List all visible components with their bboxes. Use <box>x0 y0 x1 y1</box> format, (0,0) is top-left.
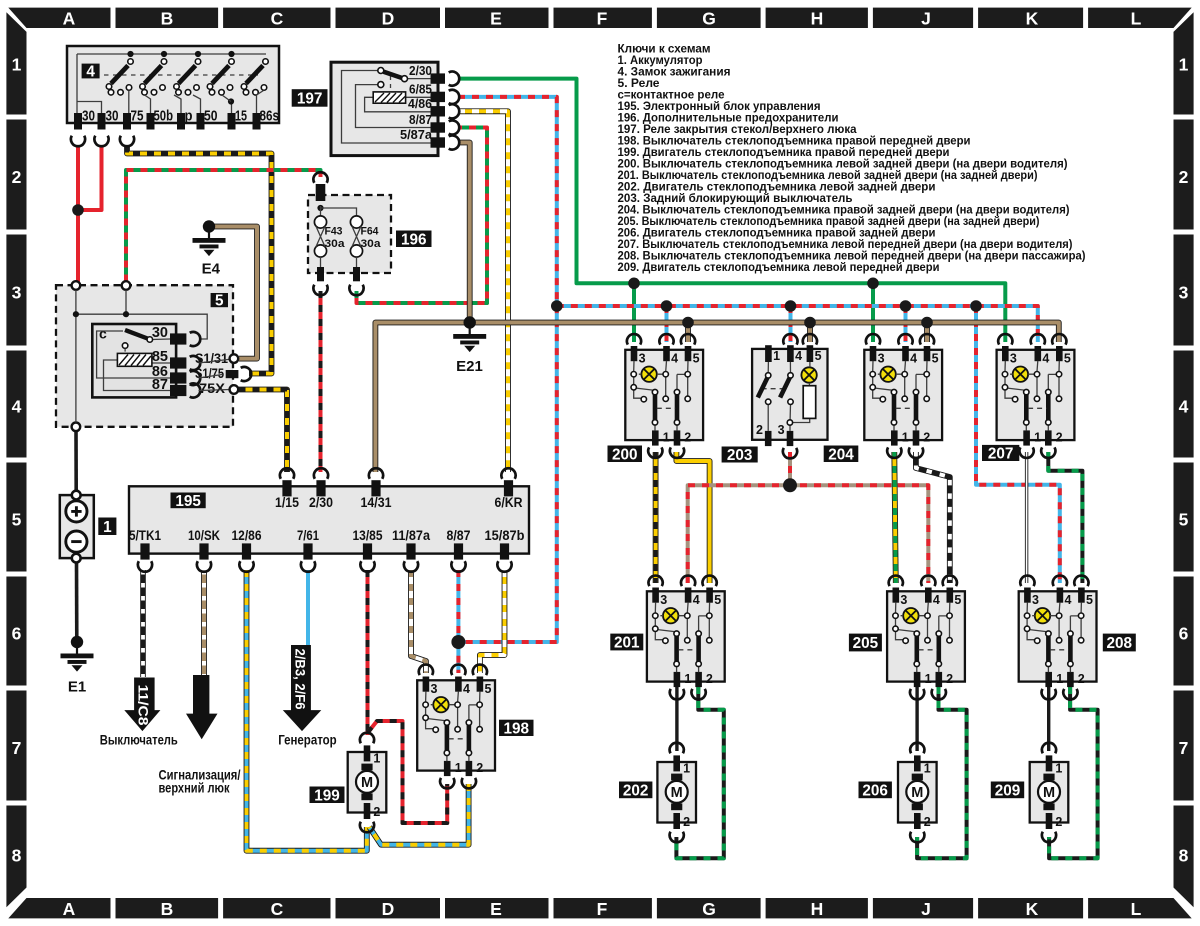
label 4 <box>82 64 100 81</box>
window switch 201 <box>647 576 725 700</box>
label 209 <box>991 782 1024 800</box>
svg-text:205: 205 <box>853 635 879 652</box>
svg-text:1: 1 <box>773 349 780 363</box>
svg-text:8: 8 <box>12 845 22 865</box>
ground E4 <box>193 220 226 256</box>
svg-text:1/15: 1/15 <box>275 495 299 510</box>
wire green drop to 200 pin3 <box>632 283 636 342</box>
label 195 <box>171 493 206 510</box>
ground E21 <box>453 316 486 352</box>
svg-text:H: H <box>811 899 824 919</box>
svg-text:J: J <box>921 899 931 919</box>
svg-text:E: E <box>490 8 502 28</box>
wire black-white 5/TK1 <box>140 570 146 677</box>
arrow 11/C8 to switch <box>124 678 160 732</box>
svg-text:204: 204 <box>828 446 854 463</box>
window switch 200 <box>625 334 703 458</box>
svg-text:4: 4 <box>86 64 95 81</box>
svg-text:7/61: 7/61 <box>297 528 319 543</box>
svg-text:30a: 30a <box>325 238 346 250</box>
svg-text:11/C8: 11/C8 <box>136 685 152 726</box>
wire blue-red bus <box>557 306 1038 342</box>
wire black-green 201p2 to 202p2 <box>676 687 723 858</box>
wire cyan-yellow 12/86 <box>247 570 367 851</box>
svg-text:206: 206 <box>862 782 888 799</box>
label 198 <box>499 720 534 738</box>
svg-text:6/85: 6/85 <box>409 81 432 96</box>
label 197 <box>292 89 328 107</box>
svg-text:198: 198 <box>503 720 529 737</box>
wire yellow-black 75X to 1/15 <box>239 390 288 473</box>
window motor 199 <box>348 733 387 833</box>
svg-text:F64: F64 <box>361 226 380 238</box>
wire battery to ground E1 <box>75 563 79 643</box>
svg-text:S1/75: S1/75 <box>195 365 224 381</box>
svg-text:Генератор: Генератор <box>278 733 337 748</box>
svg-text:5: 5 <box>1179 509 1189 529</box>
junction dot red feed <box>72 204 84 216</box>
svg-text:208: 208 <box>1107 635 1133 652</box>
label 206 <box>859 782 892 800</box>
svg-text:196: 196 <box>401 231 427 248</box>
svg-text:C: C <box>271 899 284 919</box>
svg-text:195: 195 <box>175 493 201 510</box>
svg-text:L: L <box>1131 899 1142 919</box>
wire blue-red drop to 203 pin4 <box>789 306 793 342</box>
wire brown 5/87a down <box>458 143 470 323</box>
svg-text:F43: F43 <box>325 226 343 238</box>
svg-text:2/30: 2/30 <box>309 495 333 510</box>
rear lockout switch 203 <box>752 334 827 458</box>
svg-text:50: 50 <box>204 108 218 125</box>
relay 5 <box>56 281 251 431</box>
svg-text:15: 15 <box>235 108 247 125</box>
junction dot blue-red at 203 <box>785 300 797 312</box>
svg-text:2: 2 <box>1179 167 1189 187</box>
junction dot blue-red at 200 <box>661 300 673 312</box>
svg-text:E4: E4 <box>202 261 221 278</box>
wire black 208p1 to 209 <box>1047 687 1050 751</box>
svg-text:7: 7 <box>1179 738 1189 758</box>
wire red-black branch to 198 pin1 <box>368 721 448 823</box>
svg-text:D: D <box>382 8 395 28</box>
wire yellow 200p2 to 201p5 <box>676 452 709 583</box>
label 203 <box>722 447 758 465</box>
svg-text:c: c <box>99 326 107 342</box>
control unit 195 <box>129 468 529 572</box>
svg-text:200: 200 <box>612 446 638 463</box>
svg-text:K: K <box>1026 899 1039 919</box>
ignition switch 4 <box>67 46 279 146</box>
svg-text:5/TK1: 5/TK1 <box>129 528 161 543</box>
svg-text:H: H <box>811 8 824 28</box>
label 1 <box>98 518 116 536</box>
svg-text:203: 203 <box>727 447 753 464</box>
wire red-gray 203 pin3 bus <box>788 452 792 485</box>
wire yellow-white 15/87b <box>480 570 505 673</box>
svg-text:G: G <box>702 899 716 919</box>
arrow to alarm/sunroof <box>186 675 218 739</box>
fuse box 196 <box>308 172 391 295</box>
svg-text:2/30: 2/30 <box>409 63 432 78</box>
svg-text:A: A <box>63 899 76 919</box>
svg-text:207: 207 <box>988 445 1014 462</box>
svg-text:B: B <box>161 899 174 919</box>
svg-text:10/SK: 10/SK <box>188 528 220 543</box>
svg-text:4/86: 4/86 <box>408 96 432 111</box>
svg-text:3: 3 <box>1179 282 1189 302</box>
wire green-red relay5 to fuse box <box>126 170 321 282</box>
wire red link pin30b <box>79 146 102 211</box>
battery 1 <box>60 491 94 563</box>
wire black-white 204p2 to 205p5 <box>916 452 950 583</box>
svg-text:верхний люк: верхний люк <box>159 781 230 796</box>
wire white-brown 11/87a <box>411 570 426 673</box>
svg-text:4: 4 <box>1179 396 1189 416</box>
wire black 201p1 to 202 <box>675 687 678 751</box>
svg-text:5/87a: 5/87a <box>400 127 433 142</box>
wire green bus 2/30 to switches <box>458 79 1005 342</box>
window switch 198 <box>417 665 495 789</box>
svg-text:209: 209 <box>995 782 1021 799</box>
svg-text:E: E <box>490 899 502 919</box>
junction dot brown at 204 <box>921 317 933 329</box>
wire red-green F64 to 8/87 <box>357 128 488 304</box>
junction dot blue-red near 198 <box>451 635 465 649</box>
svg-text:8/87: 8/87 <box>447 528 471 543</box>
label 202 <box>619 782 652 800</box>
wire red-black F43 to 2/30 <box>319 291 323 472</box>
wire blue-red drop to 200 pin4 <box>665 306 669 342</box>
svg-text:86s: 86s <box>260 108 280 125</box>
wire blue-red drop to 204 pin4 <box>904 306 908 342</box>
svg-text:5: 5 <box>215 293 224 310</box>
wire brown drop to 203 pin5 <box>807 323 813 343</box>
svg-text:J: J <box>921 8 931 28</box>
svg-text:G: G <box>702 8 716 28</box>
window switch 205 <box>887 576 965 700</box>
svg-text:209. Двигатель стеклоподъемник: 209. Двигатель стеклоподъемника левой пе… <box>618 260 940 274</box>
wire black-green 208p2 to 209p2 <box>1049 687 1098 858</box>
svg-text:1: 1 <box>12 54 22 74</box>
legend text <box>618 41 1086 273</box>
label 200 <box>608 446 643 464</box>
svg-text:2/B3, 2/F6: 2/B3, 2/F6 <box>292 649 308 710</box>
wire red-gray bus horizontal <box>688 485 929 583</box>
svg-text:B: B <box>161 8 174 28</box>
wire red-black 13/85 to 199 <box>366 570 370 735</box>
ground E1 <box>61 636 94 672</box>
svg-text:K: K <box>1026 8 1039 28</box>
svg-text:201: 201 <box>614 635 640 652</box>
svg-text:5: 5 <box>12 509 22 529</box>
window motor 206 <box>898 743 937 843</box>
svg-text:C: C <box>271 8 284 28</box>
arrow 2/B3 2/F6 to generator <box>283 645 322 731</box>
wire brown bus E21 <box>375 323 1058 473</box>
svg-text:S1/31: S1/31 <box>195 350 228 366</box>
svg-text:p: p <box>185 108 193 125</box>
svg-text:D: D <box>382 899 395 919</box>
wire cyan 7/61 <box>306 570 310 646</box>
label 208 <box>1103 634 1136 652</box>
svg-text:1: 1 <box>1179 54 1189 74</box>
svg-text:E1: E1 <box>68 679 86 696</box>
label 201 <box>610 634 643 652</box>
junction dot blue-red at 204 <box>900 300 912 312</box>
svg-text:13/85: 13/85 <box>353 528 383 543</box>
svg-text:3: 3 <box>778 423 785 437</box>
svg-text:197: 197 <box>297 90 323 107</box>
svg-text:199: 199 <box>314 787 340 804</box>
wire black-green 205p2 to 206p2 <box>917 687 967 858</box>
svg-text:L: L <box>1131 8 1142 28</box>
relay 197 <box>331 62 459 155</box>
wire yellow-green 204p1 to 205p3 <box>894 452 896 583</box>
wire blue-red 6/85 down <box>458 97 557 673</box>
wire yellow-white 4/86 to 6/KR <box>458 111 508 472</box>
svg-text:8: 8 <box>1179 845 1189 865</box>
junction dot brown at 203 <box>804 317 816 329</box>
wire black 205p1 to 206 <box>915 687 918 751</box>
wire blue-red 195 8/87 to junction <box>456 570 460 642</box>
wire yellow-black 200p1 to 201p3 <box>653 452 659 583</box>
junction dot green bus at 200 <box>628 278 640 290</box>
label 5 <box>211 293 228 310</box>
wire brown E4 to S1/31 <box>209 227 257 359</box>
label 205 <box>849 634 882 652</box>
junction dot blue-red at 208 riser <box>970 300 982 312</box>
svg-text:E21: E21 <box>456 358 483 375</box>
junction dot red-gray bus <box>783 478 797 492</box>
junction dot brown at 200 <box>682 317 694 329</box>
svg-text:6: 6 <box>1179 623 1189 643</box>
label 199 <box>310 787 345 805</box>
window switch 204 <box>864 334 942 458</box>
wire yellow-black 75 to S1/75 <box>127 146 272 374</box>
svg-text:30: 30 <box>106 108 119 125</box>
junction dot green bus at 204 <box>867 278 879 290</box>
wire black-green 207p2 to 208p5 <box>1048 452 1082 583</box>
window motor 202 <box>657 743 696 843</box>
wire battery feed from relay 5 <box>74 431 78 492</box>
svg-text:202: 202 <box>623 782 649 799</box>
svg-text:8/87: 8/87 <box>409 112 432 127</box>
svg-text:30a: 30a <box>361 238 382 250</box>
svg-text:50b: 50b <box>154 108 174 125</box>
svg-text:14/31: 14/31 <box>361 495 392 510</box>
wire green drop to 204 pin3 <box>871 283 875 342</box>
svg-text:3: 3 <box>12 282 22 302</box>
svg-text:F: F <box>597 899 608 919</box>
wire brown drop to 204 pin5 <box>924 323 930 343</box>
svg-text:4: 4 <box>12 396 22 416</box>
svg-text:15/87b: 15/87b <box>485 528 525 543</box>
label 207 <box>982 445 1019 463</box>
label 196 <box>396 231 432 249</box>
wire white 207p1 to 208p3 <box>1025 452 1028 583</box>
svg-text:1: 1 <box>103 519 112 536</box>
svg-text:75X: 75X <box>199 380 226 396</box>
svg-text:A: A <box>63 8 76 28</box>
window switch 207 <box>997 334 1075 458</box>
window motor 209 <box>1030 743 1069 843</box>
svg-text:4: 4 <box>795 349 802 363</box>
label 204 <box>824 446 859 464</box>
wire brown drop to 200 pin5 <box>685 323 691 343</box>
wire red feed pin30 to relay 5 <box>76 146 80 282</box>
svg-text:Выключатель: Выключатель <box>100 733 178 748</box>
window switch 208 <box>1019 576 1097 700</box>
svg-text:6: 6 <box>12 623 22 643</box>
svg-text:7: 7 <box>12 738 22 758</box>
svg-text:30: 30 <box>82 108 95 125</box>
svg-text:75: 75 <box>131 108 144 125</box>
svg-text:6/KR: 6/KR <box>495 495 523 510</box>
wire brown-white 10/SK <box>201 570 207 676</box>
svg-text:F: F <box>597 8 608 28</box>
svg-text:12/86: 12/86 <box>232 528 262 543</box>
svg-text:5: 5 <box>815 349 822 363</box>
svg-text:2: 2 <box>756 423 763 437</box>
svg-text:2: 2 <box>12 167 22 187</box>
junction dot blue-red at 6/85 riser <box>551 300 563 312</box>
wire cyan-yellow 198 pin2 to 199 <box>369 784 468 845</box>
wire blue-red branch to 208 pin4 <box>976 306 1060 583</box>
svg-text:11/87a: 11/87a <box>392 528 430 543</box>
